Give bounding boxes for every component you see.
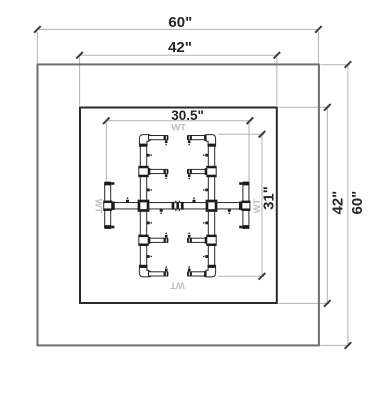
- right vertical pipe: [208, 140, 214, 272]
- lower-left branch pipe: [148, 238, 164, 242]
- tee inlet bar left: [104, 201, 114, 210]
- inlet bar pipe right right: [243, 184, 249, 227]
- hub main-left bar: [112, 202, 115, 210]
- outer square (60in fire pit enclosure): [38, 64, 319, 345]
- svg-text:42": 42": [330, 191, 347, 215]
- cap top-right stub: [187, 135, 191, 145]
- svg-text:30.5": 30.5": [171, 108, 204, 123]
- cross right: [206, 200, 217, 211]
- cap bar top right: [242, 182, 249, 186]
- cap upper-right branch: [187, 169, 191, 179]
- nozzle left pipe y189.9: [147, 189, 152, 192]
- lower-right branch pipe: [191, 238, 207, 242]
- dimension 60" right: [320, 61, 366, 349]
- top-right stub pipe: [191, 136, 207, 140]
- svg-text:WT: WT: [171, 123, 186, 134]
- cap bottom-left stub: [164, 266, 168, 276]
- svg-text:60": 60": [168, 14, 192, 31]
- cap bottom-right stub: [187, 266, 191, 276]
- svg-text:42": 42": [168, 39, 192, 56]
- svg-text:31": 31": [261, 186, 278, 210]
- bottom-left stub pipe: [149, 272, 165, 276]
- left vertical pipe: [140, 140, 146, 272]
- dimension 60" top: [34, 14, 322, 63]
- nozzle left pipe y222.9: [147, 222, 152, 225]
- center orifice fitting: [172, 201, 184, 211]
- nozzle bar top right: [239, 182, 242, 185]
- inlet bar pipe left left: [105, 184, 111, 227]
- tee upper-right: [205, 166, 217, 176]
- svg-text:WT: WT: [252, 199, 263, 214]
- nozzle right pipe y256.5: [203, 255, 208, 258]
- nozzle main down x161: [160, 209, 163, 214]
- cap bar bottom right: [242, 225, 249, 229]
- top-left stub pipe: [149, 136, 165, 140]
- cap upper-left branch: [164, 169, 168, 179]
- cap bar top left: [104, 182, 111, 186]
- cap lower-right branch: [187, 233, 191, 243]
- cross left: [138, 200, 149, 211]
- svg-text:WT: WT: [93, 199, 104, 214]
- elbow top-left: [139, 135, 151, 147]
- nozzle right pipe y222.9: [203, 222, 208, 225]
- cap bar bottom left: [104, 225, 111, 229]
- nozzle left pipe y155.2: [147, 154, 152, 157]
- nozzle main up x194: [193, 198, 196, 203]
- hub main-right bar: [239, 202, 242, 210]
- cap top-left stub: [164, 135, 168, 145]
- nozzle main down x229: [228, 209, 231, 214]
- main pipe horizontal: [111, 203, 243, 209]
- nozzle bar top left: [111, 182, 114, 185]
- dimension 42" top: [76, 39, 280, 105]
- nozzle main up x127: [126, 198, 129, 203]
- elbow bottom-right: [204, 265, 216, 277]
- elbow top-right: [204, 135, 216, 147]
- nozzle bar bottom left: [111, 226, 114, 229]
- bottom-right stub pipe: [191, 272, 207, 276]
- tee lower-left: [139, 235, 151, 245]
- nozzle bar bottom right: [239, 226, 242, 229]
- nozzle right pipe y189.9: [203, 189, 208, 192]
- cap lower-left branch: [164, 233, 168, 243]
- nozzle left pipe y256.5: [147, 255, 152, 258]
- tee inlet bar right: [240, 201, 250, 210]
- svg-text:60": 60": [349, 191, 366, 215]
- dimension 30.5" burner width: [103, 108, 253, 200]
- upper-left branch pipe: [148, 169, 164, 173]
- svg-text:WT: WT: [170, 279, 185, 290]
- inner square (42in opening): [80, 108, 277, 304]
- tee lower-right: [205, 235, 217, 245]
- dimension 42" right: [279, 104, 347, 307]
- nozzle right pipe y155.2: [203, 154, 208, 157]
- tee upper-left: [139, 166, 151, 176]
- dimension 31" burner height: [218, 131, 278, 280]
- upper-right branch pipe: [191, 169, 207, 173]
- elbow bottom-left: [139, 265, 151, 277]
